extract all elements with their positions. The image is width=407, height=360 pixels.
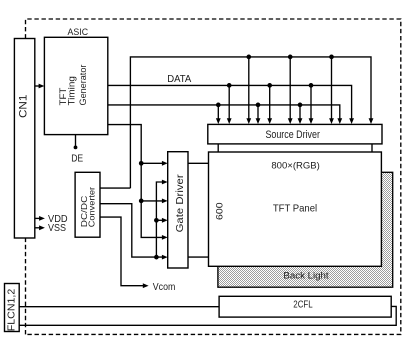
svg-text:CN1: CN1 bbox=[18, 95, 30, 119]
wire: DATA bus line 1 (top, from DC/DC riser) bbox=[130, 57, 371, 188]
svg-text:Timing: Timing bbox=[67, 76, 77, 105]
lamp 2CFL bbox=[219, 296, 391, 317]
svg-text:ASIC: ASIC bbox=[68, 27, 89, 37]
node: V2/V3 junction bbox=[154, 255, 159, 260]
svg-text:DE: DE bbox=[71, 152, 83, 164]
node: line3 drop 1 bbox=[216, 103, 221, 119]
node: line1 drop 1 bbox=[246, 55, 251, 119]
wire: DE stub bbox=[75, 135, 77, 147]
svg-text:TFT Panel: TFT Panel bbox=[273, 202, 317, 214]
wire: DATA bus line 3 from ASIC bbox=[108, 105, 340, 119]
node: line3 drop 2 bbox=[256, 103, 261, 119]
connector CN1 bbox=[14, 39, 34, 239]
wire: ASIC to gate-driver distribution V1 bbox=[108, 125, 163, 238]
wire: VSS stub bbox=[35, 223, 66, 234]
arrows into Gate Driver bbox=[162, 161, 168, 260]
ASIC U1: TFT timing generator bbox=[44, 27, 107, 134]
arrows into Source Driver bbox=[216, 118, 374, 124]
wire: DC/DC output 3 to Vcom bbox=[100, 217, 143, 286]
wire: gate driver to panel bottom connector bbox=[188, 256, 209, 258]
svg-text:FLCN1,2: FLCN1,2 bbox=[7, 288, 18, 331]
svg-text:2CFL: 2CFL bbox=[293, 300, 313, 311]
svg-text:Back Light: Back Light bbox=[283, 270, 329, 280]
node: line2 drop 2 bbox=[267, 83, 272, 119]
wire: V3 distribution bbox=[156, 182, 163, 257]
node: line1 drop 3 bbox=[329, 55, 334, 119]
node: V1 branch 1 bbox=[139, 161, 163, 166]
node: line1 drop 2 bbox=[288, 55, 293, 119]
svg-text:600: 600 bbox=[214, 202, 224, 220]
svg-text:Source Driver: Source Driver bbox=[265, 129, 320, 141]
gate driver bbox=[168, 152, 188, 268]
back light panel bbox=[218, 172, 393, 287]
svg-text:Converter: Converter bbox=[88, 187, 97, 228]
wire: VDD stub bbox=[35, 214, 68, 225]
svg-text:DATA: DATA bbox=[167, 73, 191, 85]
wire: CN1 to ASIC arrow bbox=[35, 84, 45, 89]
node: V1 branch 2 bbox=[139, 199, 163, 204]
wire: DC/DC output 1 to riser bbox=[100, 187, 130, 189]
node: line2 drop 3 bbox=[309, 83, 314, 119]
wire: source driver to panel connector right bbox=[371, 144, 373, 152]
arrow Vcom bbox=[143, 283, 149, 288]
svg-text:800×(RGB): 800×(RGB) bbox=[271, 161, 320, 171]
svg-text:Vcom: Vcom bbox=[153, 281, 176, 293]
wire: source driver to panel connector left bbox=[217, 144, 219, 152]
node DE dot bbox=[74, 146, 78, 150]
svg-text:VSS: VSS bbox=[48, 223, 66, 234]
wire: CFL lamp wire 2 (return) bbox=[19, 306, 396, 325]
wire: gate driver to panel top connector bbox=[188, 162, 209, 164]
connector FLCN1,2 bbox=[5, 284, 20, 332]
wire: DATA bus line 2 from ASIC bbox=[108, 85, 352, 118]
svg-text:Gate Driver: Gate Driver bbox=[174, 174, 186, 233]
node: line2 drop 1 bbox=[227, 83, 232, 119]
source driver bbox=[208, 124, 382, 143]
TFT panel U3 bbox=[209, 152, 382, 266]
node: line3 drop 3 bbox=[298, 103, 303, 119]
wire: DC/DC output 2 down to gate driver row bbox=[100, 204, 163, 257]
DC/DC converter U2 bbox=[75, 172, 100, 237]
wire: CFL lamp wire 1 bbox=[19, 306, 219, 308]
svg-text:Generator: Generator bbox=[78, 65, 88, 106]
node: V3 branch bbox=[154, 218, 163, 223]
